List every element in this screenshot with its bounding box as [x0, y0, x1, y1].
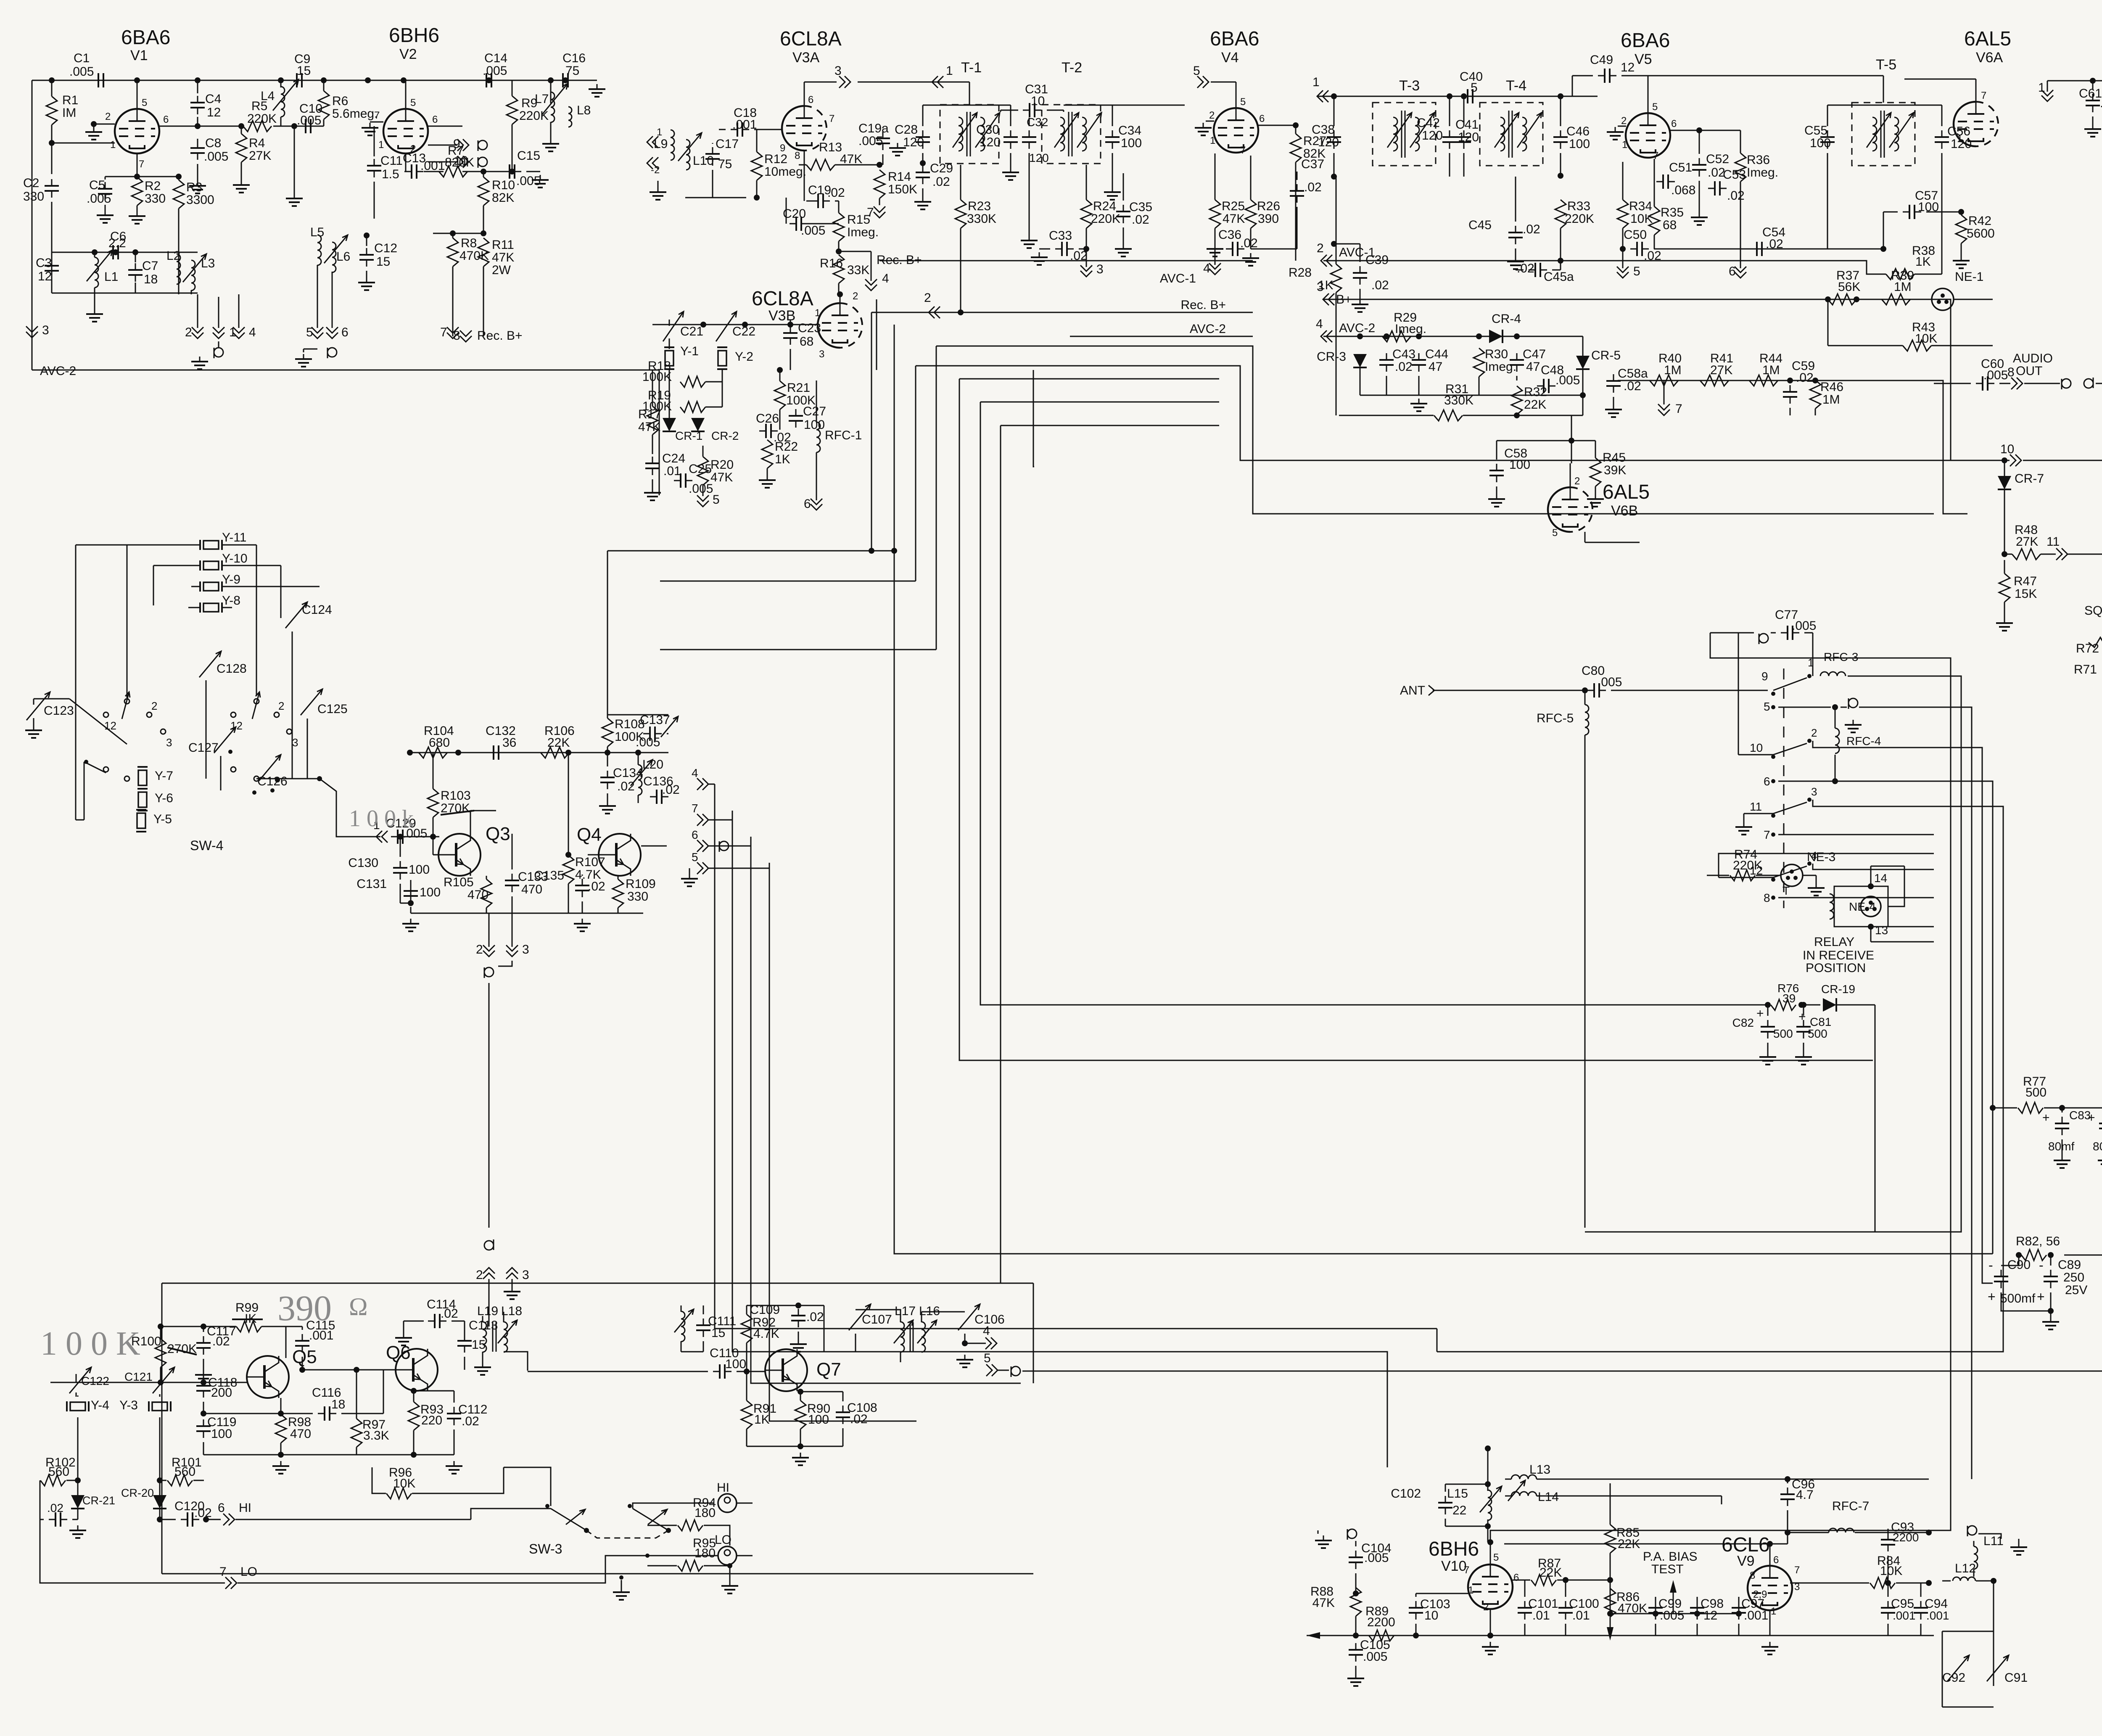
- svg-text:.02: .02: [462, 1414, 479, 1428]
- svg-text:R23: R23: [968, 199, 991, 213]
- svg-text:R45: R45: [1603, 451, 1626, 465]
- svg-text:75: 75: [565, 64, 579, 78]
- coil L4 variable: [280, 80, 282, 87]
- capacitor C13: [411, 164, 412, 179]
- svg-text:C41: C41: [1455, 118, 1479, 132]
- diode CR-3: [1353, 354, 1367, 367]
- svg-text:6: 6: [1259, 113, 1265, 124]
- svg-text:.02: .02: [194, 1506, 212, 1520]
- svg-text:15K: 15K: [2015, 587, 2037, 601]
- svg-text:100: 100: [804, 418, 825, 432]
- svg-text:.005: .005: [801, 224, 825, 238]
- svg-text:250: 250: [2063, 1271, 2084, 1284]
- svg-text:12: 12: [104, 719, 116, 732]
- crystal Y-6: [138, 792, 147, 807]
- svg-text:47K: 47K: [638, 420, 660, 434]
- svg-text:4: 4: [1811, 849, 1817, 862]
- svg-text:-: -: [1988, 1258, 1993, 1273]
- svg-text:C35: C35: [1129, 200, 1152, 214]
- svg-text:5: 5: [306, 325, 313, 339]
- resistor R108: [602, 718, 613, 747]
- coil L15: [1488, 1490, 1492, 1520]
- capacitor C25: [680, 473, 681, 488]
- svg-text:5: 5: [410, 97, 416, 108]
- svg-text:L3: L3: [201, 256, 215, 270]
- wire V3B pin rows: [697, 778, 703, 790]
- capacitor C33: [1061, 242, 1063, 256]
- svg-text:10K: 10K: [1880, 1564, 1902, 1578]
- svg-text:2: 2: [185, 325, 192, 339]
- svg-text:5: 5: [692, 851, 698, 864]
- transistor Q5: [247, 1356, 289, 1398]
- svg-text:470: 470: [521, 883, 542, 896]
- svg-text:Y-6: Y-6: [155, 791, 173, 805]
- svg-text:C121: C121: [124, 1370, 153, 1383]
- coil L-pre Q7: [681, 1311, 685, 1342]
- svg-text:1 0 0 k: 1 0 0 k: [349, 806, 414, 832]
- diode CR-20: [153, 1495, 166, 1509]
- svg-text:+: +: [1756, 1007, 1764, 1020]
- transistor Q7: [765, 1349, 807, 1391]
- svg-text:470: 470: [290, 1427, 311, 1441]
- diode CR-2: [691, 418, 705, 431]
- svg-text:80mf: 80mf: [2093, 1140, 2102, 1153]
- svg-text:2: 2: [1317, 241, 1324, 255]
- svg-text:2: 2: [1811, 727, 1817, 739]
- svg-text:2200: 2200: [1367, 1615, 1395, 1629]
- svg-text:11: 11: [1750, 800, 1762, 813]
- svg-text:SQUELCH: SQUELCH: [2084, 604, 2102, 618]
- svg-text:7: 7: [1464, 1564, 1469, 1576]
- crystal Y-7: [138, 770, 147, 785]
- capacitor C53: [1714, 181, 1716, 196]
- svg-text:47: 47: [1526, 360, 1540, 374]
- resistor R45: [1590, 458, 1601, 486]
- svg-text:.005: .005: [1983, 368, 2008, 382]
- svg-text:V6B: V6B: [1611, 503, 1638, 519]
- svg-text:5.6meg.: 5.6meg.: [332, 107, 378, 121]
- svg-text:.02: .02: [662, 783, 680, 797]
- svg-text:R20: R20: [710, 458, 734, 472]
- ground V1 grid2: [93, 127, 95, 132]
- svg-text:Imeg.: Imeg.: [847, 225, 879, 239]
- capacitor C46: [1553, 136, 1568, 138]
- svg-text:.02: .02: [1796, 371, 1814, 385]
- svg-text:200: 200: [211, 1386, 232, 1400]
- svg-text:.068: .068: [1671, 183, 1695, 197]
- svg-text:R30: R30: [1485, 347, 1508, 361]
- svg-text:15: 15: [376, 255, 390, 269]
- svg-text:.02: .02: [1766, 237, 1783, 251]
- capacitor C4: [197, 80, 198, 93]
- svg-text:7: 7: [374, 110, 380, 121]
- svg-text:3: 3: [1811, 785, 1817, 798]
- svg-text:R1: R1: [62, 93, 78, 107]
- svg-text:5: 5: [142, 97, 147, 108]
- svg-text:V9: V9: [1737, 1553, 1755, 1569]
- wire sw4 out to C129: [320, 779, 380, 837]
- capacitor C8: [190, 147, 205, 149]
- svg-text:3: 3: [1096, 262, 1104, 276]
- resistor R109: [613, 879, 623, 908]
- svg-text:10K: 10K: [1630, 212, 1653, 226]
- crystal bank Y-1 Y-2: [663, 312, 684, 341]
- svg-text:.02: .02: [1624, 379, 1641, 393]
- svg-text:C19a: C19a: [858, 122, 889, 135]
- resistor R94: [678, 1520, 703, 1531]
- resistor R26: [1245, 200, 1256, 228]
- resistor R32: [1511, 386, 1522, 415]
- svg-text:CR-5: CR-5: [1591, 349, 1621, 362]
- svg-text:3: 3: [42, 323, 49, 337]
- svg-text:.01: .01: [1572, 1609, 1590, 1622]
- svg-text:AVC-2: AVC-2: [40, 364, 76, 378]
- resistor R44: [1749, 375, 1778, 386]
- capacitor C132: [493, 745, 494, 760]
- svg-text:AVC-2: AVC-2: [1190, 322, 1226, 336]
- coil L12: [1953, 1577, 1975, 1581]
- capacitor C118: [196, 1385, 211, 1387]
- resistor R5: [243, 121, 272, 132]
- resistor R101: [167, 1475, 193, 1486]
- capacitor C106 variable: [958, 1304, 980, 1330]
- resistor R36: [1735, 153, 1746, 182]
- resistor R40: [1650, 375, 1678, 386]
- svg-text:3.3K: 3.3K: [363, 1429, 389, 1443]
- svg-text:R2: R2: [145, 179, 161, 193]
- output arrows V1 band: [191, 290, 192, 294]
- svg-text:R3: R3: [186, 180, 202, 194]
- resistor R95: [678, 1560, 703, 1571]
- svg-text:33K: 33K: [847, 263, 869, 277]
- svg-text:2: 2: [105, 111, 111, 122]
- svg-text:1K: 1K: [1318, 278, 1334, 292]
- capacitor C99: [1648, 1607, 1663, 1609]
- svg-text:.02: .02: [1644, 249, 1661, 263]
- svg-text:6: 6: [1513, 1572, 1519, 1583]
- capacitor C77: [1787, 626, 1788, 640]
- transistor Q3: [438, 834, 481, 876]
- resistor R19: [680, 402, 705, 412]
- svg-text:C21: C21: [680, 325, 703, 338]
- svg-text:R107: R107: [575, 855, 605, 869]
- svg-text:Q5: Q5: [292, 1347, 317, 1367]
- cathode network C5 R2 R3: [137, 153, 138, 177]
- svg-text:2: 2: [476, 1268, 483, 1282]
- capacitor C133: [505, 880, 519, 881]
- svg-text:C4: C4: [205, 92, 221, 106]
- svg-text:IM: IM: [62, 106, 76, 120]
- resistor R107: [563, 855, 574, 884]
- capacitor C2: [45, 185, 59, 187]
- svg-text:RFC-4: RFC-4: [1846, 735, 1881, 748]
- coil RFC-5: [1585, 705, 1589, 735]
- svg-text:82K: 82K: [492, 191, 514, 205]
- svg-text:2: 2: [924, 291, 931, 305]
- svg-text:220: 220: [421, 1414, 442, 1427]
- svg-text:R22: R22: [775, 440, 798, 454]
- svg-text:5: 5: [1493, 1552, 1499, 1563]
- capacitor C11: [374, 126, 375, 156]
- svg-text:Y-7: Y-7: [155, 769, 173, 783]
- arrow 6 HI: [223, 1514, 229, 1525]
- svg-text:.02: .02: [806, 1310, 824, 1324]
- svg-text:-: -: [2039, 1258, 2044, 1273]
- svg-text:6AL5: 6AL5: [1964, 28, 2011, 50]
- svg-text:C27: C27: [803, 404, 826, 418]
- svg-text:5600: 5600: [1967, 227, 1995, 240]
- diode CR-1: [663, 418, 676, 431]
- svg-text:ANT: ANT: [1400, 684, 1425, 698]
- stage rail Q3: [410, 752, 668, 753]
- svg-text:5: 5: [1552, 527, 1558, 539]
- capacitor C92 C91 variable: [1947, 1655, 1969, 1681]
- svg-text:R47: R47: [2014, 574, 2037, 588]
- capacitor C110: [719, 1364, 721, 1379]
- capacitor C15: [509, 164, 510, 179]
- svg-text:1M: 1M: [1664, 363, 1682, 377]
- svg-text:500mf: 500mf: [2000, 1292, 2036, 1305]
- svg-text:.02: .02: [1304, 180, 1322, 194]
- svg-text:HI: HI: [717, 1481, 729, 1495]
- svg-text:C29: C29: [930, 161, 953, 175]
- svg-text:47K: 47K: [492, 251, 514, 264]
- svg-text:330: 330: [145, 192, 166, 206]
- svg-text:.005: .005: [483, 64, 507, 78]
- svg-text:C131: C131: [356, 877, 387, 891]
- svg-text:6: 6: [692, 828, 698, 841]
- svg-text:R105: R105: [444, 875, 474, 889]
- svg-text:R10: R10: [492, 178, 515, 192]
- resistor R25: [1209, 200, 1220, 228]
- svg-text:560: 560: [48, 1465, 69, 1479]
- capacitor C52: [1692, 164, 1706, 166]
- svg-text:C50: C50: [1624, 228, 1647, 242]
- svg-text:C92: C92: [1942, 1671, 1965, 1685]
- svg-text:7: 7: [1240, 145, 1246, 156]
- svg-text:R12: R12: [764, 152, 787, 166]
- svg-text:3300: 3300: [186, 193, 214, 207]
- svg-text:C47: C47: [1523, 347, 1546, 361]
- resistor R90: [795, 1400, 806, 1429]
- resistor R23: [955, 200, 966, 228]
- resistor R74: [1730, 870, 1755, 881]
- svg-text:180: 180: [695, 1546, 716, 1560]
- svg-text:L6: L6: [336, 250, 350, 264]
- capacitor C27: [789, 415, 803, 417]
- svg-text:75: 75: [718, 157, 732, 171]
- svg-text:L2: L2: [166, 249, 180, 263]
- svg-text:Y-2: Y-2: [735, 350, 753, 364]
- svg-text:C15: C15: [517, 149, 540, 163]
- svg-text:2: 2: [1621, 115, 1627, 127]
- svg-text:6CL8A: 6CL8A: [752, 288, 813, 310]
- svg-text:5: 5: [1193, 64, 1200, 78]
- svg-text:R103: R103: [441, 789, 471, 803]
- capacitor C94: [1914, 1607, 1928, 1609]
- svg-text:10: 10: [2000, 442, 2014, 456]
- resistor R104: [419, 747, 447, 758]
- coil L9 L10 input: [652, 136, 658, 148]
- svg-text:10meg.: 10meg.: [764, 165, 806, 179]
- svg-text:10K: 10K: [393, 1477, 415, 1490]
- resistor R20: [697, 457, 708, 485]
- svg-text:47K: 47K: [1312, 1596, 1335, 1610]
- capacitor C135: [575, 885, 589, 886]
- svg-text:2W: 2W: [492, 263, 511, 277]
- svg-text:3: 3: [834, 64, 842, 78]
- resistor R89: [1369, 1630, 1394, 1641]
- svg-text:NE-1: NE-1: [1955, 270, 1983, 284]
- svg-text:8: 8: [1764, 891, 1770, 904]
- svg-text:22K: 22K: [1540, 1566, 1562, 1580]
- resistor R77: [2018, 1102, 2043, 1113]
- resistor R88: [1350, 1588, 1361, 1616]
- svg-text:1M: 1M: [1822, 393, 1840, 407]
- svg-text:C12: C12: [374, 241, 397, 255]
- svg-text:500: 500: [1808, 1027, 1827, 1040]
- svg-text:4: 4: [249, 325, 256, 339]
- svg-text:R26: R26: [1257, 199, 1280, 213]
- svg-text:8: 8: [795, 150, 800, 161]
- resistor R30: [1474, 348, 1484, 377]
- svg-text:L13: L13: [1529, 1463, 1550, 1477]
- svg-text:3: 3: [522, 1268, 529, 1282]
- detector row CR-3 C43 C44 R30 CR-4 C47 C48 CR-5: [1339, 336, 1583, 337]
- resistor R16: [833, 255, 844, 283]
- capacitor C113: [457, 1340, 472, 1342]
- svg-text:P.A. BIAS: P.A. BIAS: [1643, 1550, 1698, 1564]
- svg-text:12: 12: [1750, 864, 1763, 877]
- svg-text:Rec. B+: Rec. B+: [477, 329, 523, 343]
- svg-text:36: 36: [502, 736, 516, 750]
- svg-text:4: 4: [1316, 317, 1323, 331]
- resistor R41: [1700, 375, 1729, 386]
- svg-text:6: 6: [1764, 775, 1770, 788]
- svg-text:C122: C122: [81, 1374, 109, 1387]
- svg-text:CR-4: CR-4: [1492, 312, 1521, 326]
- svg-text:C26: C26: [756, 412, 779, 425]
- svg-text:7: 7: [692, 802, 698, 815]
- svg-text:.005: .005: [1792, 619, 1816, 633]
- lamp HI: [718, 1494, 737, 1512]
- svg-text:6: 6: [1729, 264, 1736, 278]
- resistor R18: [680, 376, 705, 387]
- coil L11: [1967, 1526, 1977, 1536]
- wire top B+ bus: [32, 80, 597, 81]
- svg-text:C125: C125: [317, 702, 348, 716]
- svg-text:.02: .02: [1517, 262, 1534, 275]
- svg-text:R8: R8: [461, 236, 477, 250]
- crystal Y-11: [203, 541, 219, 549]
- resistor R10: [478, 177, 489, 206]
- svg-text:L12: L12: [1955, 1562, 1976, 1575]
- svg-text:12: 12: [230, 719, 243, 732]
- svg-text:HI: HI: [239, 1501, 251, 1515]
- svg-text:L14: L14: [1538, 1490, 1559, 1504]
- wire mid right runs: [1296, 1253, 1993, 1255]
- tube V6B 6AL5: [1548, 487, 1570, 532]
- svg-text:.005: .005: [1555, 373, 1580, 387]
- capacitor C61: [2086, 100, 2100, 101]
- svg-text:LO: LO: [715, 1533, 731, 1547]
- capacitor C36: [1232, 242, 1233, 256]
- crystal Y-8: [203, 603, 219, 612]
- svg-text:C123: C123: [44, 704, 74, 718]
- svg-text:11: 11: [2047, 535, 2060, 549]
- svg-text:.02: .02: [1727, 189, 1745, 203]
- svg-text:6: 6: [432, 114, 438, 125]
- svg-text:100: 100: [1121, 136, 1142, 150]
- svg-text:6BH6: 6BH6: [389, 24, 439, 47]
- svg-text:R32: R32: [1524, 385, 1547, 399]
- svg-text:R6: R6: [332, 94, 348, 108]
- svg-text:39: 39: [1782, 992, 1796, 1005]
- resistor R12: [751, 152, 762, 180]
- svg-text:L8: L8: [577, 103, 591, 117]
- svg-text:10: 10: [1750, 741, 1763, 754]
- svg-text:100: 100: [211, 1427, 232, 1441]
- svg-text:C24: C24: [662, 452, 685, 465]
- svg-text:Q3: Q3: [486, 824, 510, 844]
- svg-text:120: 120: [1029, 151, 1049, 164]
- capacitor C19a: [876, 137, 890, 139]
- svg-text:27K: 27K: [2016, 535, 2038, 549]
- svg-text:V3B: V3B: [768, 308, 795, 324]
- capacitor C45: [1508, 232, 1523, 233]
- svg-text:L17: L17: [895, 1304, 916, 1318]
- capacitor C128 variable: [199, 651, 221, 677]
- svg-text:8: 8: [453, 329, 460, 343]
- switch SW-4 wafer2: [231, 712, 236, 717]
- resistor R27: [1290, 134, 1301, 162]
- svg-text:AVC-2: AVC-2: [1339, 321, 1375, 335]
- arrows 7 8 RecB+: [447, 327, 459, 333]
- svg-text:2: 2: [476, 943, 483, 957]
- capacitor C124 variable: [285, 602, 307, 628]
- svg-text:C135: C135: [534, 869, 564, 883]
- capacitor C39: [1353, 272, 1367, 274]
- svg-text:Q6: Q6: [386, 1342, 411, 1363]
- svg-text:6BA6: 6BA6: [1210, 28, 1259, 50]
- capacitor C9: [296, 73, 298, 87]
- svg-text:330K: 330K: [1444, 394, 1474, 407]
- svg-text:T-3: T-3: [1399, 78, 1420, 94]
- svg-text:R4: R4: [249, 136, 265, 150]
- capacitor C130: [393, 867, 407, 869]
- capacitor C114: [434, 1314, 436, 1328]
- svg-text:120: 120: [903, 135, 924, 149]
- svg-text:5: 5: [1240, 96, 1246, 108]
- svg-text:AVC-1: AVC-1: [1160, 272, 1196, 285]
- resistor R43: [1903, 340, 1931, 351]
- svg-text:C130: C130: [348, 856, 378, 870]
- svg-text:L18: L18: [501, 1304, 522, 1318]
- capacitor C58: [1489, 470, 1504, 471]
- resistor R46: [1810, 380, 1821, 409]
- svg-text:CR-3: CR-3: [1317, 350, 1346, 364]
- resistor R105: [481, 879, 492, 908]
- svg-text:390: 390: [1258, 212, 1279, 226]
- capacitor C32: [1022, 136, 1036, 138]
- svg-text:100: 100: [420, 885, 441, 899]
- svg-text:2.2: 2.2: [108, 236, 126, 250]
- svg-text:120: 120: [1318, 135, 1339, 149]
- svg-text:RFC-1: RFC-1: [825, 428, 862, 442]
- svg-text:+: +: [2037, 1289, 2045, 1304]
- svg-text:CR-20: CR-20: [121, 1487, 154, 1499]
- svg-text:15: 15: [711, 1326, 725, 1340]
